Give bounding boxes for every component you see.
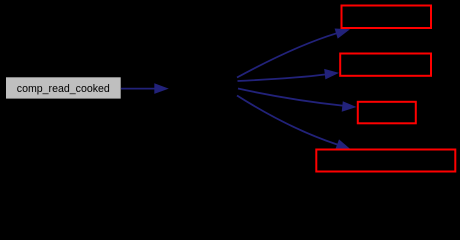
svg-text:comp_read_cooked: comp_read_cooked (17, 83, 110, 95)
arrowhead into box 2 (324, 69, 339, 80)
arrowhead into hidden middle node (154, 83, 169, 94)
node box 4 (red, hidden label) (316, 150, 455, 172)
arrowhead into box 4 (335, 139, 350, 149)
arrowhead into box 1 (335, 29, 350, 39)
node box 3 (red, hidden label) (358, 102, 416, 124)
node comp_read_cooked (grey filled box) (6, 77, 121, 98)
wire: edge to box 3 (238, 89, 343, 106)
wire: edge to box 1 (237, 33, 337, 77)
node box 1 (red, hidden label) (342, 6, 432, 29)
wire: edge comp_read_cooked to hidden middle node (121, 88, 155, 90)
wire: edge to box 4 (237, 96, 338, 145)
wire: edge to box 2 (238, 75, 326, 82)
node box 2 (red, hidden label) (340, 54, 431, 76)
arrowhead into box 3 (342, 101, 357, 112)
